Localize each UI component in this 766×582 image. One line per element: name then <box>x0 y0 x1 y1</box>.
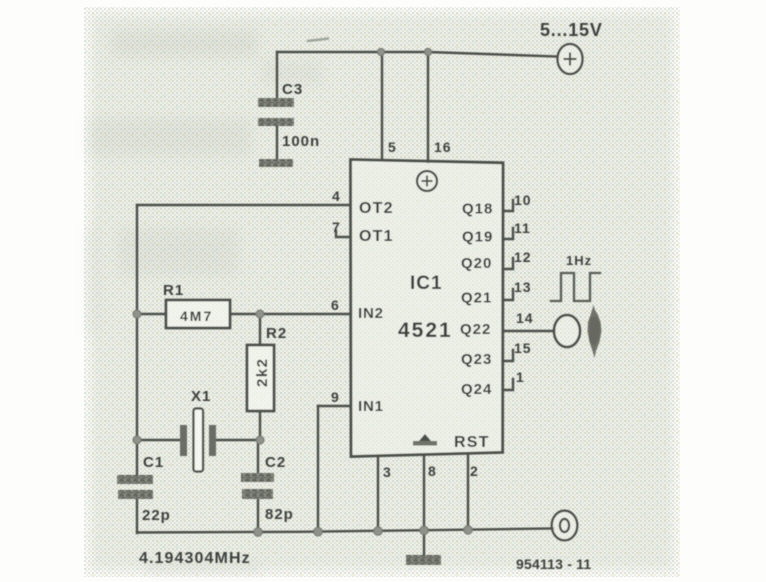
svg-text:3: 3 <box>383 464 392 480</box>
svg-text:2: 2 <box>470 463 479 479</box>
svg-text:OT1: OT1 <box>359 228 394 245</box>
svg-text:4521: 4521 <box>398 319 453 342</box>
svg-text:14: 14 <box>516 310 534 326</box>
svg-text:8: 8 <box>428 463 437 479</box>
svg-text:Q20: Q20 <box>461 255 492 272</box>
svg-text:4.194304MHz: 4.194304MHz <box>139 550 251 567</box>
svg-text:X1: X1 <box>191 388 211 405</box>
svg-text:C3: C3 <box>282 81 303 98</box>
svg-text:1Hz: 1Hz <box>566 253 592 268</box>
svg-text:82p: 82p <box>265 506 294 523</box>
svg-text:Q18: Q18 <box>462 201 493 218</box>
svg-text:6: 6 <box>331 297 340 313</box>
svg-text:100n: 100n <box>282 133 320 150</box>
svg-text:Q21: Q21 <box>461 290 492 307</box>
svg-text:15: 15 <box>514 340 532 356</box>
svg-text:16: 16 <box>434 139 452 155</box>
svg-text:7: 7 <box>332 219 341 235</box>
svg-text:12: 12 <box>514 249 532 265</box>
svg-text:Q22: Q22 <box>460 321 491 338</box>
svg-text:4: 4 <box>332 188 341 204</box>
svg-text:13: 13 <box>514 279 532 295</box>
svg-text:11: 11 <box>514 220 531 236</box>
svg-text:1: 1 <box>516 369 525 385</box>
svg-text:Q19: Q19 <box>462 229 493 246</box>
svg-text:Q23: Q23 <box>461 351 492 368</box>
svg-text:RST: RST <box>454 434 490 451</box>
svg-text:9: 9 <box>331 389 340 405</box>
svg-text:954113 - 11: 954113 - 11 <box>516 556 591 572</box>
svg-text:IN1: IN1 <box>358 398 384 415</box>
svg-text:R2: R2 <box>266 325 287 342</box>
svg-text:Q24: Q24 <box>461 381 492 398</box>
svg-text:5...15V: 5...15V <box>540 20 603 40</box>
svg-text:5: 5 <box>388 139 397 155</box>
svg-text:C1: C1 <box>143 454 164 471</box>
svg-text:2k2: 2k2 <box>254 357 271 387</box>
svg-text:C2: C2 <box>265 454 286 471</box>
svg-text:IC1: IC1 <box>410 273 443 294</box>
svg-text:R1: R1 <box>163 282 184 299</box>
svg-text:IN2: IN2 <box>358 305 384 322</box>
svg-text:10: 10 <box>514 192 532 208</box>
svg-text:4M7: 4M7 <box>180 308 213 324</box>
svg-text:22p: 22p <box>142 507 171 524</box>
svg-text:OT2: OT2 <box>359 200 394 217</box>
